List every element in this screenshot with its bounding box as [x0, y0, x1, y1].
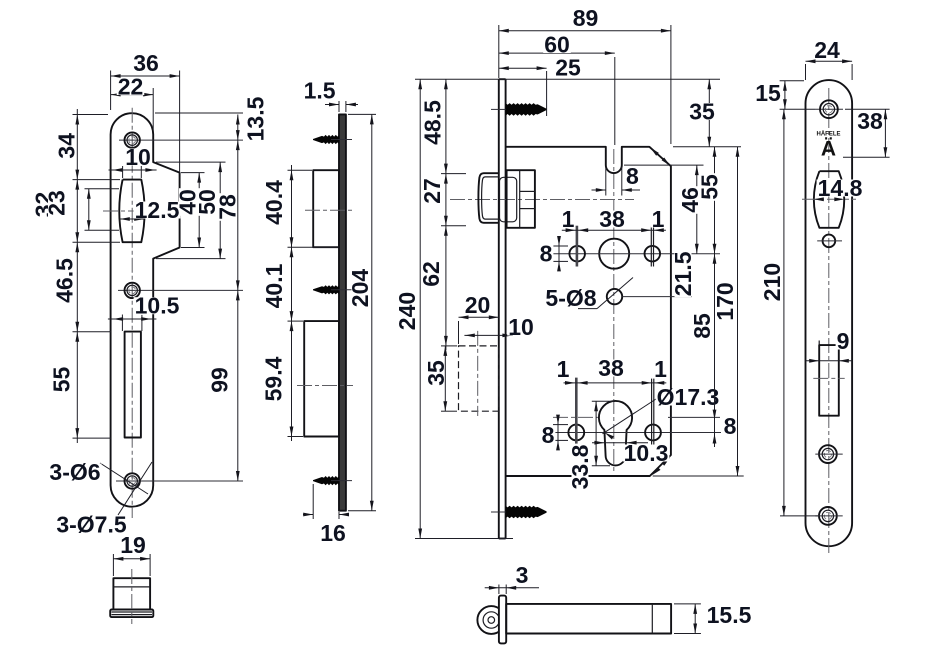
faceplate small hole	[823, 235, 836, 248]
svg-text:38: 38	[599, 206, 625, 232]
side view screw S3	[313, 476, 339, 485]
dimension 38-1-1 cylinder	[564, 382, 667, 384]
latch bolt head	[478, 173, 499, 223]
svg-text:19: 19	[120, 532, 146, 558]
screw hole H2	[125, 283, 140, 298]
leader 5-O8	[578, 308, 597, 310]
hole H3 centerline horizontal	[116, 480, 243, 482]
5-O8 centerline ext	[622, 296, 692, 298]
svg-text:1.5: 1.5	[304, 77, 336, 103]
barrel centerline	[802, 198, 856, 200]
dust cap flange	[110, 610, 153, 618]
roller pin circles	[477, 606, 505, 634]
svg-text:34: 34	[54, 133, 80, 159]
svg-text:1: 1	[652, 206, 665, 232]
dimension 12.5 of barrel	[120, 218, 144, 220]
svg-text:35: 35	[689, 99, 715, 125]
bottom edge ext line right	[653, 475, 744, 477]
svg-text:55: 55	[697, 174, 723, 200]
spindle holes centerline	[553, 253, 720, 255]
svg-text:62: 62	[418, 261, 444, 287]
svg-text:8: 8	[626, 163, 639, 189]
svg-text:8: 8	[724, 413, 737, 439]
svg-text:1: 1	[557, 356, 570, 382]
fixing hole left of spindle	[569, 246, 585, 262]
svg-text:10: 10	[125, 144, 151, 170]
chain extension lines	[73, 114, 109, 116]
svg-text:20: 20	[465, 292, 491, 318]
top extension line	[415, 78, 720, 80]
svg-text:23: 23	[44, 190, 70, 216]
screw hole H3	[125, 473, 140, 488]
svg-text:36: 36	[133, 50, 159, 76]
svg-text:99: 99	[207, 367, 233, 393]
top edge ext line right	[673, 146, 741, 148]
dust cap body	[113, 578, 150, 609]
svg-text:Ä: Ä	[821, 138, 836, 161]
dimension 25	[499, 67, 547, 69]
dimension 170	[737, 147, 739, 476]
dimension 38 right view	[843, 156, 890, 158]
svg-text:210: 210	[759, 263, 785, 301]
dimension 8 notch	[592, 189, 607, 191]
svg-text:Ø17.3: Ø17.3	[657, 384, 720, 410]
cylinder side holes centerline	[552, 432, 721, 434]
svg-text:78: 78	[214, 194, 240, 220]
dimension 8 spindle hole	[558, 237, 560, 271]
dimension 99	[237, 290, 239, 481]
dimension 22 extension line	[152, 88, 154, 130]
cylinder fixing hole right	[645, 425, 661, 441]
svg-text:89: 89	[573, 5, 599, 31]
slot mark right cylinder	[651, 379, 653, 448]
dimension 9	[806, 360, 853, 362]
latch box side view	[313, 170, 339, 247]
dimension 16	[312, 484, 314, 519]
dimension 13.5 extension lines	[155, 112, 243, 114]
dashed box centerline	[477, 331, 479, 416]
left chain dimension 48.5-27-62	[445, 79, 447, 350]
faceplate vertical centerline	[828, 88, 830, 554]
svg-text:15: 15	[755, 80, 781, 106]
dimension 23	[88, 189, 90, 231]
dimension 14.8	[814, 197, 824, 201]
dimension 24	[806, 60, 853, 62]
svg-text:38: 38	[598, 355, 624, 381]
deadbolt box side view	[304, 321, 339, 436]
dimension 36	[111, 75, 180, 77]
dimension 55 and 85 and 8 shared line	[714, 147, 716, 447]
dimension 35 top right	[708, 79, 710, 147]
leader 3-O6	[100, 463, 148, 494]
notch bottom ext line	[624, 164, 704, 166]
side chain dimension 40.4 40.1 59.4	[291, 165, 293, 441]
svg-text:8: 8	[540, 241, 553, 267]
svg-text:33.8: 33.8	[567, 444, 593, 489]
label 46.5	[52, 257, 78, 304]
dimension 15 right view	[780, 80, 804, 82]
slot mark right spindle	[650, 226, 652, 267]
dimension 15.5	[674, 603, 701, 605]
latch centerline	[450, 199, 634, 201]
dimension 38-1-1 spindle	[562, 229, 666, 231]
bottom view flange	[499, 596, 506, 644]
svg-text:3-Ø7.5: 3-Ø7.5	[56, 512, 127, 538]
latch case box	[507, 170, 535, 228]
slot mark left cylinder	[575, 378, 578, 448]
dimension 50 extension lines	[156, 161, 226, 163]
svg-text:40.4: 40.4	[261, 180, 287, 225]
euro cylinder hole	[599, 401, 632, 465]
leader 3-O7.5	[118, 462, 152, 515]
svg-text:170: 170	[712, 282, 738, 320]
faceplate hole F2	[819, 445, 837, 463]
svg-text:8: 8	[542, 422, 555, 448]
top mounting screw centerline tick	[491, 108, 507, 110]
label 55	[49, 366, 75, 394]
dimension 3	[498, 585, 500, 595]
svg-text:10.3: 10.3	[624, 440, 669, 466]
dimension 10.3	[592, 442, 648, 444]
dust cap centerline	[131, 569, 133, 624]
svg-text:15.5: 15.5	[707, 602, 752, 628]
side view plate bar	[339, 114, 346, 510]
leader O17.3	[603, 393, 667, 434]
bottom mounting screw centerline tick	[491, 511, 507, 513]
bottom mounting screw	[506, 506, 547, 519]
bottom view case	[506, 604, 671, 634]
dimension 8 cylinder hole	[557, 415, 559, 449]
bottom extension line	[415, 538, 513, 540]
lock faceplate front strip	[498, 79, 500, 538]
svg-text:204: 204	[347, 269, 373, 308]
cylinder center ext line	[553, 416, 598, 418]
svg-text:1: 1	[654, 356, 667, 382]
dimension 240	[419, 79, 421, 538]
dimension 40	[198, 173, 200, 248]
latch box centerline	[305, 209, 353, 211]
bottom chamfer oblique arrows	[652, 467, 661, 475]
svg-text:3-Ø6: 3-Ø6	[49, 459, 100, 485]
svg-text:55: 55	[49, 367, 75, 393]
svg-text:21.5: 21.5	[670, 251, 696, 296]
hole H1 centerline horizontal	[119, 139, 243, 141]
svg-text:46.5: 46.5	[52, 258, 78, 303]
faceplate hole F1	[820, 100, 838, 118]
fixing hole right of spindle	[645, 246, 661, 262]
deadbolt slot cutout	[125, 332, 141, 438]
dimension 50	[219, 162, 221, 259]
dimension 46	[696, 165, 698, 254]
dimension 1.5	[338, 101, 340, 112]
dimension 204	[371, 114, 373, 510]
dimension 10 of latch cutout	[109, 169, 157, 171]
slot mark left spindle	[576, 226, 579, 267]
label 32	[31, 191, 57, 219]
svg-text:5-Ø8: 5-Ø8	[545, 285, 596, 311]
dust cap inner line	[113, 586, 150, 588]
dimension 210	[780, 515, 818, 517]
dimension 40 extension lines	[181, 172, 205, 174]
dimension 10.5 of slot	[108, 318, 156, 320]
strike plate vertical centerline	[131, 108, 133, 518]
label 34	[54, 132, 80, 160]
bottom view divider	[651, 604, 653, 634]
dimension 78	[237, 140, 239, 290]
svg-text:48.5: 48.5	[420, 100, 446, 145]
cylinder fixing hole left	[568, 425, 584, 441]
svg-text:240: 240	[394, 292, 420, 330]
latch case divider	[519, 170, 521, 228]
svg-text:22: 22	[118, 74, 144, 100]
svg-text:38: 38	[857, 108, 883, 134]
dimension 21.5	[686, 254, 688, 297]
dimension 22	[111, 94, 154, 96]
svg-text:40.1: 40.1	[261, 263, 287, 308]
latch bolt inner	[500, 177, 517, 222]
dimension 89	[499, 30, 671, 32]
dimension 19	[113, 558, 150, 560]
svg-text:35: 35	[423, 360, 449, 386]
dimension 10 backset mark	[464, 334, 512, 336]
svg-text:10.5: 10.5	[135, 293, 180, 319]
slot centerline	[813, 377, 844, 379]
top mounting screw	[506, 103, 547, 116]
svg-text:3: 3	[516, 562, 529, 588]
svg-text:HÄFELE: HÄFELE	[817, 131, 841, 138]
dimension 60	[499, 52, 615, 54]
dimension 20	[459, 316, 499, 318]
faceplate hole F3	[819, 507, 837, 525]
svg-text:13.5: 13.5	[243, 96, 269, 141]
latch cutout center cross	[103, 210, 160, 212]
case vertical centerline	[613, 149, 615, 474]
hole 5-O8	[607, 289, 622, 304]
faceplate deadbolt slot	[819, 345, 839, 416]
left chain dimension line 34-32-46.5-55	[76, 109, 78, 443]
svg-text:16: 16	[320, 520, 346, 546]
lock case outline with notch and chamfers	[506, 147, 671, 476]
screw hole H1	[125, 132, 140, 147]
side view screw S1	[313, 135, 339, 144]
svg-text:12.5: 12.5	[135, 197, 180, 223]
svg-text:24: 24	[814, 37, 840, 63]
latch cutout barrel	[119, 180, 144, 243]
dimension 33.8	[595, 401, 597, 466]
svg-text:10: 10	[508, 314, 534, 340]
faceplate outline	[806, 80, 853, 546]
svg-text:1: 1	[562, 206, 575, 232]
svg-text:59.4: 59.4	[261, 356, 287, 401]
svg-text:9: 9	[837, 328, 850, 354]
handle dashed box	[459, 346, 499, 411]
svg-text:14.8: 14.8	[818, 175, 863, 201]
dimension 35 dashed box	[444, 346, 446, 411]
faceplate deadbolt slot corner stubs	[818, 341, 820, 346]
faceplate latch barrel cutout	[814, 171, 844, 228]
top chamfer oblique arrows	[650, 148, 659, 156]
dimension 36 extension lines	[110, 71, 112, 111]
side view screw S2	[313, 285, 339, 294]
strike plate front view outline	[111, 113, 180, 507]
svg-text:25: 25	[555, 55, 581, 81]
faceplate hole F1 centerline	[815, 108, 843, 110]
spindle follower hole	[599, 239, 629, 269]
deadbolt box centerline	[297, 385, 353, 387]
dimension 13.5	[237, 115, 239, 141]
hole H2 centerline horizontal	[118, 289, 243, 291]
svg-text:27: 27	[419, 178, 445, 204]
